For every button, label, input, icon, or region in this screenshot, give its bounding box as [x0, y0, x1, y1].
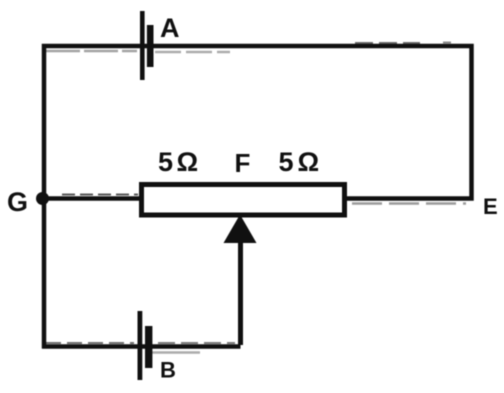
svg-text:E: E	[483, 194, 498, 219]
svg-text:G: G	[7, 187, 28, 217]
svg-text:Ω: Ω	[177, 147, 199, 177]
svg-text:F: F	[235, 148, 251, 178]
svg-text:5: 5	[158, 147, 173, 177]
svg-text:5: 5	[279, 147, 294, 177]
svg-text:A: A	[160, 13, 180, 43]
svg-text:Ω: Ω	[298, 147, 320, 177]
svg-text:B: B	[160, 358, 176, 383]
